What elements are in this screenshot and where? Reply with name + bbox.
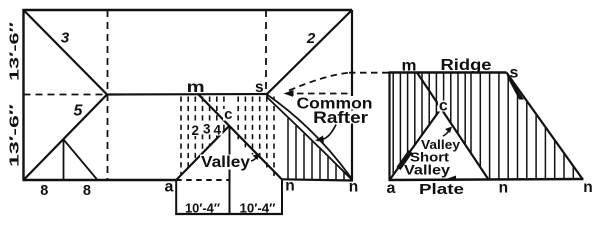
dashed swing arc to elevation bbox=[289, 73, 349, 91]
ell left wall / box left vertical bbox=[175, 180, 177, 214]
leader arrow Valley to valley line (elevation) bbox=[443, 131, 449, 137]
plan top edge bbox=[23, 9, 353, 11]
plan left edge bbox=[22, 9, 24, 180]
small arrow tick on plate line bbox=[447, 176, 456, 180]
leader arrow from Rafter to sliver bbox=[321, 125, 336, 140]
valley m-n (plan) bbox=[198, 94, 282, 179]
bold segment on short valley bbox=[399, 152, 411, 169]
svg-text:s: s bbox=[255, 79, 264, 96]
svg-text:a: a bbox=[387, 180, 396, 197]
unit-run triangle hypotenuse bbox=[64, 140, 98, 181]
svg-text:s: s bbox=[510, 65, 519, 82]
svg-text:13′-6″: 13′-6″ bbox=[8, 104, 22, 167]
svg-text:3: 3 bbox=[61, 30, 70, 47]
hip rafter 5 (bottom-left) bbox=[24, 95, 108, 181]
main ridge bbox=[107, 93, 267, 96]
svg-text:m: m bbox=[187, 79, 205, 96]
solid hatch columns (elevation figure) bbox=[393, 74, 573, 180]
svg-text:8: 8 bbox=[40, 183, 48, 199]
elevation common-rafter slant bbox=[507, 73, 583, 180]
svg-text:c: c bbox=[224, 106, 232, 123]
plan bottom edge right (plate) bbox=[282, 179, 353, 180]
arrowhead pointing to hip bbox=[284, 90, 294, 97]
svg-text:Plate: Plate bbox=[419, 182, 464, 198]
construction vertical at right hip bbox=[265, 10, 267, 94]
valley a-c (plan) bbox=[176, 126, 229, 181]
svg-text:n: n bbox=[349, 179, 358, 196]
svg-text:Ridge: Ridge bbox=[441, 57, 492, 74]
elevation ridge line bbox=[389, 71, 507, 73]
svg-text:a: a bbox=[165, 178, 174, 195]
dimension box bottom bbox=[175, 213, 283, 215]
digits 2 3 4 on hatch bbox=[190, 124, 201, 136]
svg-text:8: 8 bbox=[83, 183, 91, 199]
dashed connector to elevation ridge bbox=[349, 72, 389, 74]
svg-text:2: 2 bbox=[306, 30, 316, 47]
svg-text:5: 5 bbox=[74, 103, 84, 120]
hip rafter 3 (top-left) bbox=[24, 10, 108, 95]
common rafter sliver (hip corner wedge) bbox=[267, 95, 351, 179]
svg-text:n: n bbox=[285, 178, 294, 195]
plate dashed across ell bbox=[176, 179, 230, 181]
elevation plate line bbox=[389, 179, 584, 180]
dashed line hip to right edge bbox=[286, 93, 351, 95]
svg-text:Rafter: Rafter bbox=[313, 109, 369, 127]
solid hatch columns (plan, common rafter area) bbox=[288, 118, 344, 179]
svg-text:2: 2 bbox=[192, 123, 200, 138]
svg-text:Valley: Valley bbox=[201, 154, 250, 171]
plan right edge bbox=[351, 10, 353, 181]
svg-text:c: c bbox=[439, 97, 448, 114]
svg-text:13′-6″: 13′-6″ bbox=[8, 22, 22, 81]
svg-text:Valley: Valley bbox=[404, 163, 451, 178]
svg-text:n: n bbox=[583, 179, 592, 196]
hip rafter 2 (top-right) bbox=[267, 10, 352, 94]
ell ridge / box divider vertical bbox=[229, 126, 231, 215]
ell right wall / box right vertical bbox=[281, 179, 283, 214]
elevation left edge (a vertical) bbox=[388, 73, 390, 181]
svg-text:m: m bbox=[402, 58, 417, 75]
leader arrow from Valley to valley line bbox=[251, 157, 257, 162]
plan bottom edge left (plate) bbox=[23, 179, 177, 181]
elevation short valley a-c line bbox=[390, 109, 442, 181]
bold segment at slant top bbox=[507, 73, 525, 100]
elevation valley m-n line bbox=[417, 73, 489, 180]
svg-text:10′-4″: 10′-4″ bbox=[185, 201, 220, 216]
center line dashed (left) bbox=[24, 94, 108, 96]
construction vertical at left hip bbox=[107, 10, 109, 180]
unit-run triangle vertical bbox=[63, 140, 65, 181]
svg-text:10′-4″: 10′-4″ bbox=[240, 201, 276, 216]
svg-text:4: 4 bbox=[214, 123, 222, 138]
svg-text:3: 3 bbox=[203, 122, 211, 137]
dashed hatch columns (plan ell area) bbox=[181, 97, 274, 177]
svg-text:n: n bbox=[499, 180, 508, 197]
